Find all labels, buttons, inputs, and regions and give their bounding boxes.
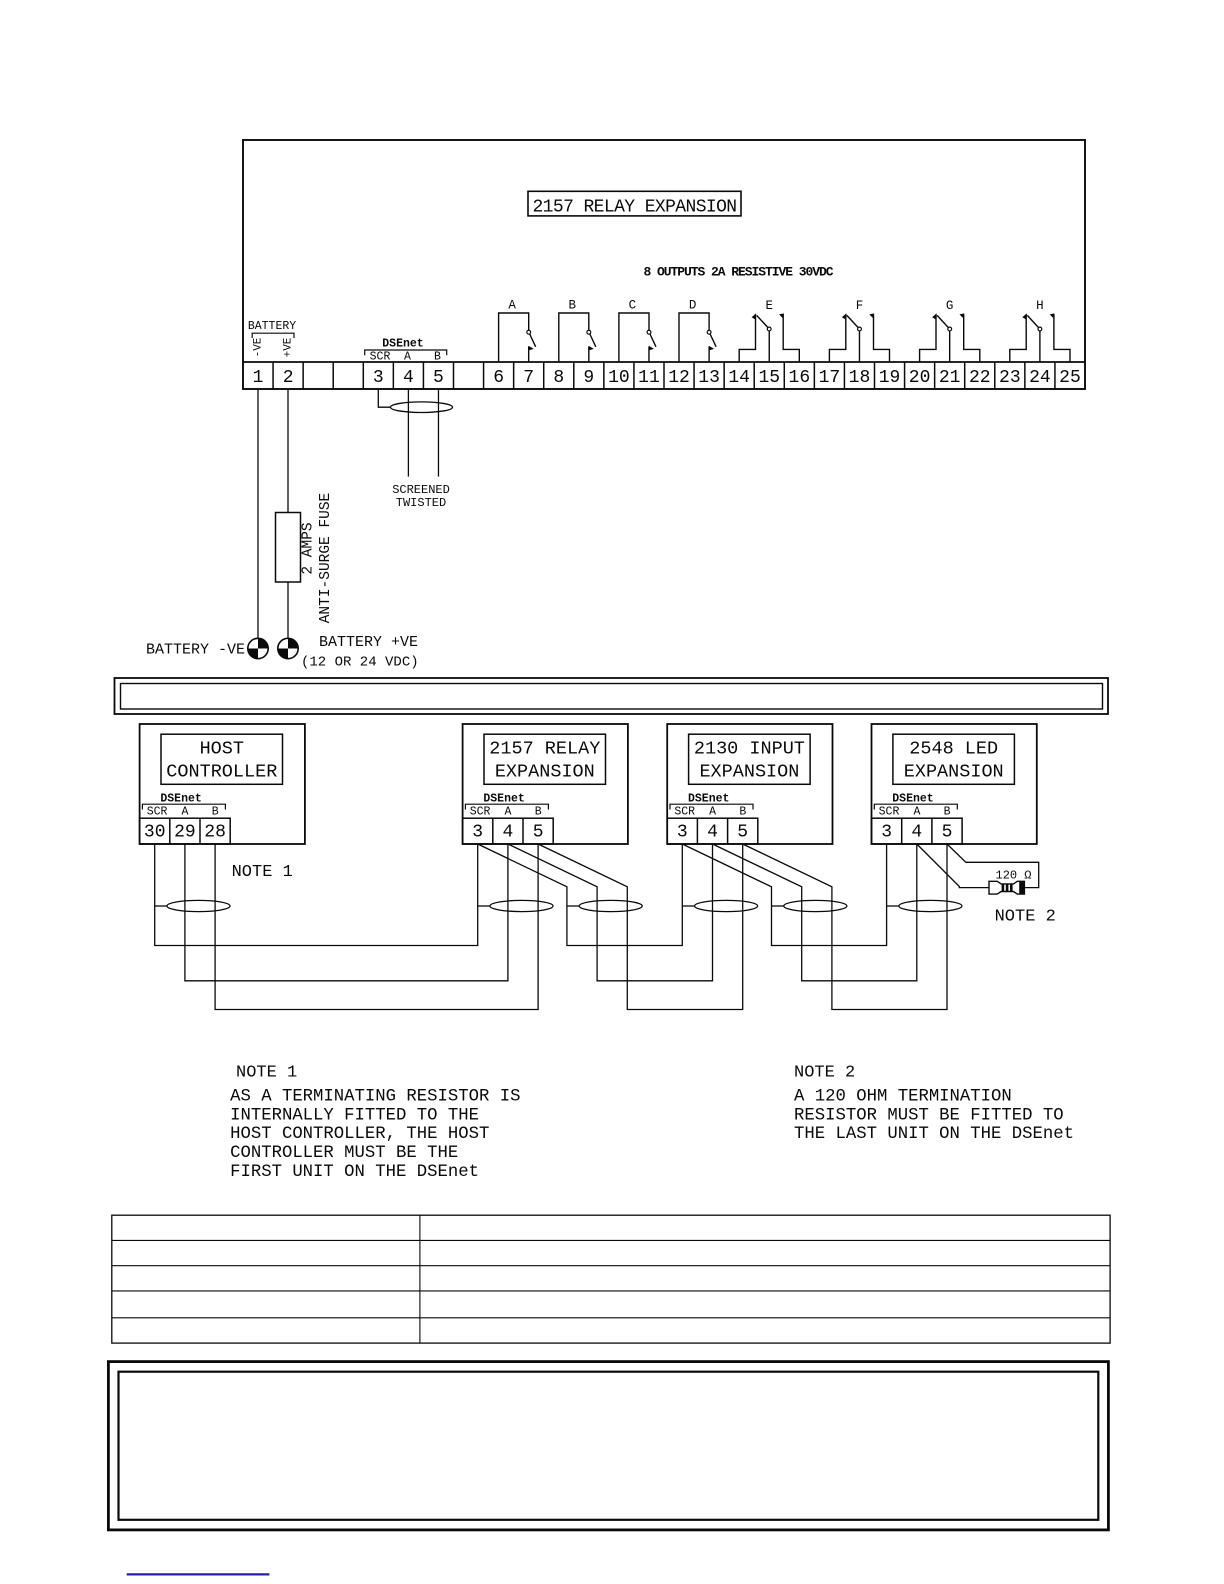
2157 relay expansion title box	[484, 734, 606, 784]
svg-text:5: 5	[737, 823, 748, 843]
svg-text:NOTE 2: NOTE 2	[794, 1064, 855, 1083]
wire terminal 1 to battery -ve	[257, 389, 259, 638]
svg-text:HOST CONTROLLER, THE HOST: HOST CONTROLLER, THE HOST	[230, 1125, 489, 1144]
svg-text:THE LAST UNIT ON THE DSEnet: THE LAST UNIT ON THE DSEnet	[794, 1125, 1074, 1144]
svg-text:22: 22	[969, 368, 991, 388]
svg-text:NOTE 2: NOTE 2	[995, 908, 1056, 927]
2157 relay expansion unit box	[463, 724, 628, 844]
svg-text:INTERNALLY FITTED TO THE: INTERNALLY FITTED TO THE	[230, 1106, 479, 1125]
relay contact C (terminals 10-11)	[619, 299, 656, 363]
svg-text:BATTERY +VE: BATTERY +VE	[319, 634, 418, 651]
svg-text:+VE: +VE	[283, 337, 295, 357]
svg-text:D: D	[689, 299, 697, 313]
svg-text:E: E	[765, 299, 773, 313]
relay contact D (terminals 12-13)	[679, 299, 716, 363]
host controller DSEnet bracket	[142, 804, 225, 809]
wire terminal 5 B	[437, 389, 439, 477]
svg-text:SCR: SCR	[147, 806, 168, 819]
wire B: 2157 relay expansion to next unit	[538, 844, 743, 1010]
svg-text:B: B	[944, 806, 951, 819]
resistor R1 120 ohm termination	[989, 881, 1025, 894]
battery +ve terminal symbol	[278, 638, 298, 658]
svg-text:19: 19	[879, 368, 901, 388]
svg-text:120 Ω: 120 Ω	[996, 868, 1032, 882]
svg-text:H: H	[1036, 299, 1044, 313]
svg-text:C: C	[629, 299, 637, 313]
svg-text:HOST: HOST	[200, 738, 244, 759]
relay contact A (terminals 6-7)	[499, 299, 536, 363]
terminal strip of 2157 relay expansion	[243, 361, 1085, 363]
svg-text:A: A	[505, 806, 512, 819]
2548 led expansion unit box	[872, 724, 1037, 844]
svg-text:BATTERY: BATTERY	[248, 320, 296, 333]
svg-text:SCREENED: SCREENED	[392, 483, 450, 497]
wire terminal 3 SCR to screen	[378, 389, 390, 407]
NOTE 1 paragraph	[230, 1088, 520, 1182]
svg-text:13: 13	[698, 368, 720, 388]
svg-text:DSEnet: DSEnet	[382, 338, 423, 351]
svg-text:4: 4	[707, 823, 718, 843]
host controller title box	[161, 734, 283, 784]
svg-text:G: G	[946, 299, 954, 313]
2130 input expansion terminal cells 3-4-5	[667, 818, 758, 844]
svg-text:CONTROLLER: CONTROLLER	[166, 762, 277, 783]
svg-text:A: A	[508, 299, 516, 313]
svg-text:FIRST UNIT ON THE DSEnet: FIRST UNIT ON THE DSEnet	[230, 1163, 479, 1182]
svg-text:RESISTOR MUST BE FITTED TO: RESISTOR MUST BE FITTED TO	[794, 1106, 1064, 1125]
wire terminal 4 A	[407, 389, 409, 477]
svg-text:5: 5	[433, 368, 444, 388]
svg-text:AS A TERMINATING RESISTOR IS: AS A TERMINATING RESISTOR IS	[230, 1088, 520, 1107]
2157 relay expansion DSEnet bracket	[465, 804, 548, 809]
svg-text:EXPANSION: EXPANSION	[495, 762, 595, 783]
2157 relay expansion unit outline (top diagram)	[243, 140, 1085, 389]
svg-text:TWISTED: TWISTED	[396, 496, 446, 510]
svg-text:SCR: SCR	[674, 806, 695, 819]
svg-text:11: 11	[638, 368, 660, 388]
svg-text:EXPANSION: EXPANSION	[699, 762, 799, 783]
footer hyperlink underline	[127, 1573, 270, 1575]
bottom warning box (double border)	[108, 1362, 1108, 1530]
screen ellipse at 2130 input expansion (incoming)	[682, 905, 694, 907]
svg-text:SCR: SCR	[470, 806, 491, 819]
wire fuse to battery +ve	[287, 582, 289, 638]
svg-text:2130 INPUT: 2130 INPUT	[694, 738, 805, 759]
svg-text:2548 LED: 2548 LED	[909, 738, 998, 759]
wire B: 2130 input expansion to next unit	[743, 844, 947, 1010]
2130 input expansion unit box	[667, 724, 832, 844]
wire A: 2130 input expansion to next unit	[713, 844, 917, 981]
svg-text:A 120 OHM TERMINATION: A 120 OHM TERMINATION	[794, 1088, 1012, 1107]
2130 input expansion DSEnet bracket	[670, 804, 753, 809]
svg-text:NOTE 1: NOTE 1	[236, 1064, 297, 1083]
wire A: 2157 relay expansion to next unit	[508, 844, 713, 981]
svg-text:SCR: SCR	[879, 806, 900, 819]
svg-text:24: 24	[1029, 368, 1051, 388]
svg-text:4: 4	[403, 368, 414, 388]
wire SCR: 2157 relay expansion to next unit	[478, 844, 683, 946]
svg-text:F: F	[856, 299, 864, 313]
svg-text:12: 12	[668, 368, 690, 388]
svg-text:28: 28	[204, 823, 226, 843]
svg-text:2 AMPS: 2 AMPS	[301, 522, 317, 574]
relay contact F (terminals 17-18-19)	[829, 299, 889, 362]
wire 2548 terminal 5 to resistor right lead	[947, 844, 1039, 888]
svg-text:9: 9	[583, 368, 594, 388]
svg-text:EXPANSION: EXPANSION	[904, 762, 1004, 783]
svg-text:18: 18	[849, 368, 871, 388]
svg-text:8: 8	[553, 368, 564, 388]
svg-text:A: A	[913, 806, 920, 819]
svg-text:3: 3	[677, 823, 688, 843]
svg-text:ANTI-SURGE FUSE: ANTI-SURGE FUSE	[318, 493, 334, 624]
wire 2548 terminal 4 to resistor left lead	[917, 844, 989, 888]
svg-text:2157 RELAY: 2157 RELAY	[489, 738, 600, 759]
screen ellipse at 2157 relay expansion (outgoing)	[567, 905, 579, 907]
svg-text:2157 RELAY EXPANSION: 2157 RELAY EXPANSION	[532, 198, 736, 218]
svg-text:4: 4	[911, 823, 922, 843]
svg-text:A: A	[709, 806, 716, 819]
svg-text:2: 2	[283, 368, 294, 388]
svg-text:DSEnet: DSEnet	[483, 792, 524, 805]
svg-text:30: 30	[144, 823, 166, 843]
wire A: host 29 to 2157 terminal 4	[185, 844, 508, 981]
screen ellipse at 2157 relay expansion (incoming)	[478, 905, 490, 907]
svg-text:A: A	[182, 806, 189, 819]
svg-text:1: 1	[253, 368, 264, 388]
svg-text:B: B	[212, 806, 219, 819]
2548 led expansion terminal cells 3-4-5	[872, 818, 963, 844]
relay contact G (terminals 20-21-22)	[920, 299, 980, 362]
screened cable screen ellipse (top)	[391, 402, 453, 413]
svg-text:DSEnet: DSEnet	[892, 792, 933, 805]
svg-text:(12 OR 24 VDC): (12 OR 24 VDC)	[301, 655, 419, 671]
svg-text:23: 23	[999, 368, 1021, 388]
screen ellipse at 2548 led expansion	[887, 905, 899, 907]
svg-text:6: 6	[493, 368, 504, 388]
2548 led expansion title box	[893, 734, 1015, 784]
host controller unit box	[140, 724, 305, 844]
svg-text:3: 3	[373, 368, 384, 388]
svg-text:3: 3	[881, 823, 892, 843]
wire SCR: 2130 input expansion to next unit	[682, 844, 886, 946]
svg-text:-VE: -VE	[253, 337, 265, 357]
svg-text:14: 14	[728, 368, 750, 388]
separator bar (double border)	[115, 678, 1109, 714]
svg-text:5: 5	[533, 823, 544, 843]
specification table	[112, 1215, 1110, 1343]
svg-text:8 OUTPUTS 2A RESISTIVE 30VDC: 8 OUTPUTS 2A RESISTIVE 30VDC	[643, 265, 833, 280]
svg-text:SCR: SCR	[370, 351, 391, 364]
svg-text:15: 15	[758, 368, 780, 388]
svg-text:CONTROLLER MUST BE THE: CONTROLLER MUST BE THE	[230, 1144, 458, 1163]
2548 led expansion DSEnet bracket	[874, 804, 957, 809]
DSEnet bracket over SCR A B	[365, 350, 447, 355]
svg-text:B: B	[535, 806, 542, 819]
title box 2157 RELAY EXPANSION	[528, 191, 741, 216]
battery -ve terminal symbol	[248, 638, 268, 658]
svg-text:DSEnet: DSEnet	[160, 792, 201, 805]
svg-text:25: 25	[1059, 368, 1081, 388]
wire terminal 2 to fuse	[287, 389, 289, 513]
svg-text:DSEnet: DSEnet	[688, 792, 729, 805]
svg-text:16: 16	[789, 368, 811, 388]
svg-text:10: 10	[608, 368, 630, 388]
relay contact E (terminals 14-15-16)	[739, 299, 799, 362]
screen ellipse at 2130 input expansion (outgoing)	[772, 905, 784, 907]
svg-text:17: 17	[819, 368, 841, 388]
relay contact H (terminals 23-24-25)	[1010, 299, 1070, 362]
svg-text:21: 21	[939, 368, 961, 388]
2157 relay expansion terminal cells 3-4-5	[463, 818, 554, 844]
svg-text:7: 7	[523, 368, 534, 388]
screen ellipse at host controller	[155, 905, 167, 907]
svg-text:29: 29	[174, 823, 196, 843]
2130 input expansion title box	[689, 734, 811, 784]
svg-text:4: 4	[502, 823, 513, 843]
wire B: host 28 to 2157 terminal 5	[215, 844, 538, 1010]
svg-text:B: B	[569, 299, 577, 313]
wire SCR: host 30 to 2157 terminal 3	[155, 844, 478, 946]
svg-text:3: 3	[472, 823, 483, 843]
svg-text:5: 5	[942, 823, 953, 843]
NOTE 2 paragraph	[794, 1088, 1074, 1145]
svg-text:B: B	[739, 806, 746, 819]
svg-text:B: B	[434, 351, 441, 364]
fuse F1 2A anti-surge	[276, 513, 301, 583]
relay contact B (terminals 8-9)	[559, 299, 596, 363]
host controller terminal cells 30-29-28	[140, 818, 231, 844]
svg-text:NOTE 1: NOTE 1	[232, 863, 293, 882]
BATTERY bracket over terminals 1-2	[252, 333, 294, 338]
svg-text:BATTERY -VE: BATTERY -VE	[146, 642, 245, 659]
svg-text:20: 20	[909, 368, 931, 388]
svg-text:A: A	[404, 351, 411, 364]
